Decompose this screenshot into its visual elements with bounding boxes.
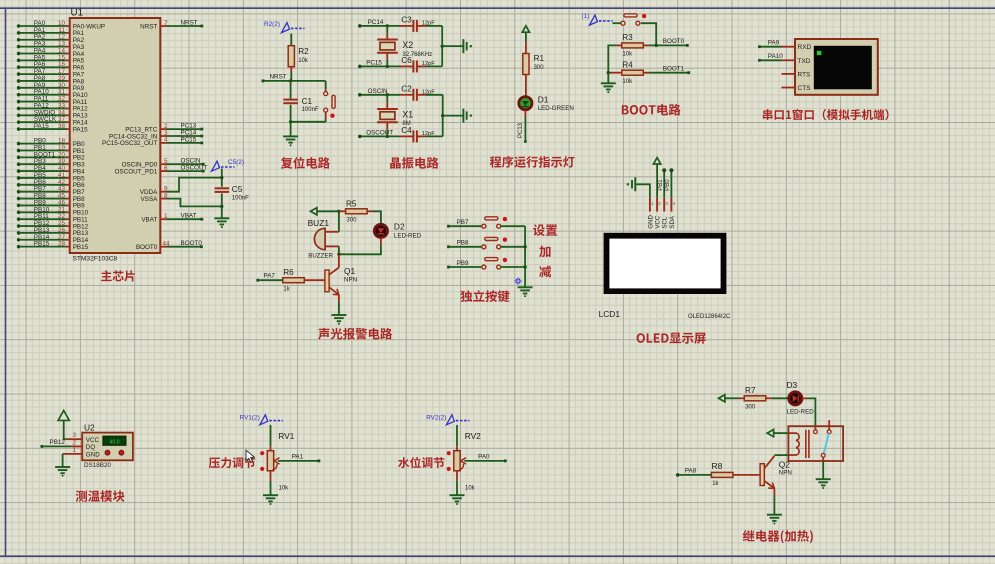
svg-text:X2: X2 bbox=[402, 40, 413, 50]
svg-text:R5: R5 bbox=[346, 199, 357, 208]
svg-text:PB15: PB15 bbox=[34, 241, 50, 248]
label 设置 bbox=[533, 224, 557, 236]
label jingzhen dianlu bbox=[390, 157, 438, 169]
svg-text:PC15: PC15 bbox=[181, 136, 197, 143]
svg-text:OLED12864I2C: OLED12864I2C bbox=[688, 314, 731, 320]
svg-text:PB12: PB12 bbox=[50, 439, 66, 446]
wire R3 left to node bbox=[608, 45, 622, 72]
U1 pin 4 PC15 wire bbox=[102, 136, 203, 147]
wire button to BOOT0 node bbox=[641, 23, 656, 45]
svg-text:GND: GND bbox=[86, 452, 100, 459]
wire PB7 to button bbox=[447, 219, 482, 228]
CTS pin stub bbox=[782, 87, 796, 89]
wire R8 to Q2 base bbox=[733, 474, 760, 476]
wire D2 to collector node bbox=[339, 238, 381, 255]
svg-text:D3: D3 bbox=[787, 380, 798, 390]
svg-text:BUZ1: BUZ1 bbox=[308, 218, 330, 228]
wire net PB1 to U1 pin 19 bbox=[17, 144, 85, 154]
svg-text:D1: D1 bbox=[538, 94, 549, 104]
power flag R2(2) bbox=[264, 21, 305, 33]
wire flag to RV2 bbox=[456, 425, 458, 451]
wire net PB7 to U1 pin 43 bbox=[17, 186, 85, 196]
svg-text:STM32F103C8: STM32F103C8 bbox=[73, 255, 118, 262]
wire node to Q1 collector bbox=[338, 254, 340, 267]
push button PB7 bbox=[482, 217, 507, 228]
wire RV1 wiper to PA1 bbox=[278, 454, 321, 463]
svg-text:OSCIN: OSCIN bbox=[368, 88, 388, 95]
wire R1 to D1 bbox=[525, 75, 527, 97]
wire to ground bbox=[290, 122, 292, 137]
wire Q2 collector to coil bbox=[774, 454, 788, 456]
potentiometer RV2 bbox=[447, 431, 482, 492]
svg-text:32.768KHz: 32.768KHz bbox=[402, 52, 432, 58]
svg-text:RTS: RTS bbox=[798, 72, 812, 79]
power flag RV1(2) bbox=[240, 414, 283, 425]
wire net PA8 to U1 pin 29 bbox=[17, 75, 85, 85]
power arrow relay coil bbox=[767, 430, 788, 437]
wire PA9 to RXD bbox=[758, 39, 795, 48]
ground reset circuit bbox=[283, 136, 298, 146]
wire NRST down to C1 bbox=[290, 81, 292, 99]
ground below C5 bbox=[214, 218, 229, 228]
U1 pin 5 OSCIN wire bbox=[122, 158, 205, 169]
svg-text:R2(2): R2(2) bbox=[264, 21, 280, 28]
wire D1 to PC13 bbox=[518, 110, 527, 143]
svg-text:LED-RED: LED-RED bbox=[787, 408, 815, 415]
wire R4 to BOOT1 bbox=[643, 66, 690, 75]
svg-text:BOOT0: BOOT0 bbox=[663, 38, 685, 45]
display LCD1 OLED12864I2C bbox=[599, 233, 731, 320]
U1 pin 7 NRST wire bbox=[140, 19, 203, 30]
label 压力调节 bbox=[209, 457, 255, 468]
wire PB9 to button bbox=[447, 260, 482, 269]
wire net SWDIO to U1 pin 34 bbox=[17, 109, 88, 119]
node NRST bbox=[262, 74, 326, 83]
label fuwei dianlu bbox=[281, 157, 330, 169]
svg-text:1k: 1k bbox=[283, 286, 290, 292]
wire D3 to relay common bbox=[802, 398, 815, 429]
wire relay contact to ground bbox=[822, 457, 824, 479]
label OLED xianshiping bbox=[637, 333, 706, 344]
wire net PA11 to U1 pin 32 bbox=[17, 96, 88, 106]
wire C5 bottom bbox=[220, 194, 223, 218]
label zhuxinpian bbox=[101, 270, 135, 281]
svg-text:VBAT: VBAT bbox=[181, 213, 197, 220]
U2 pin 2 DQ wire PB12 bbox=[41, 439, 83, 448]
wire net PA3 to U1 pin 13 bbox=[17, 41, 85, 51]
wire BUZ1 bottom to node bbox=[337, 246, 340, 256]
push button PB9 bbox=[482, 258, 507, 269]
wire flag to R2 bbox=[290, 34, 292, 46]
svg-text:C5(2): C5(2) bbox=[228, 159, 244, 166]
label 减 bbox=[539, 266, 551, 278]
push button PB8 bbox=[482, 237, 507, 248]
svg-text:PB7: PB7 bbox=[457, 219, 469, 226]
resistor R4 bbox=[622, 61, 644, 85]
svg-text:3: 3 bbox=[72, 432, 76, 439]
junction marker blue bbox=[514, 277, 522, 285]
wire to boot button bbox=[613, 22, 622, 24]
svg-text:RV1(2): RV1(2) bbox=[240, 414, 260, 421]
U2 pin 1 GND bbox=[63, 447, 83, 467]
svg-text:BOOT0: BOOT0 bbox=[136, 244, 158, 251]
wire Q1 emitter to ground bbox=[338, 295, 340, 315]
crystal X2 group (C3/C6) bbox=[358, 16, 472, 73]
svg-text:PB9: PB9 bbox=[457, 260, 469, 267]
wire net PB3 to U1 pin 39 bbox=[17, 158, 85, 168]
svg-text:PA15: PA15 bbox=[73, 126, 88, 133]
svg-text:BOOT1: BOOT1 bbox=[663, 66, 685, 73]
power arrow U2 bbox=[58, 411, 69, 440]
svg-text:CTS: CTS bbox=[798, 85, 812, 92]
wire VCC power bbox=[654, 158, 661, 198]
U1 pin 9 VDDA wire bbox=[140, 178, 222, 196]
svg-text:U2: U2 bbox=[84, 423, 95, 433]
power arrow left of R7 bbox=[719, 395, 745, 402]
svg-text:40.0: 40.0 bbox=[109, 439, 119, 445]
svg-text:PC13: PC13 bbox=[518, 122, 524, 138]
wire PA10 to TXD bbox=[758, 53, 795, 62]
push button boot bbox=[621, 14, 646, 25]
U1 pin 1 VBAT wire bbox=[141, 213, 203, 224]
svg-text:RV1: RV1 bbox=[278, 431, 294, 441]
wire button PB9 to bus bbox=[501, 266, 525, 268]
svg-text:OSCOUT_PD1: OSCOUT_PD1 bbox=[115, 168, 158, 175]
LCD1 pin GND bbox=[647, 198, 654, 229]
wire flag to RV1 bbox=[270, 425, 272, 451]
power flag RV2(2) bbox=[426, 414, 469, 425]
svg-text:300: 300 bbox=[534, 65, 545, 71]
svg-text:LED-RED: LED-RED bbox=[394, 232, 422, 239]
potentiometer RV1 bbox=[260, 431, 295, 492]
svg-text:PC15: PC15 bbox=[366, 59, 382, 66]
wire net SWCLK to U1 pin 37 bbox=[17, 116, 88, 126]
LCD1 pin VCC bbox=[655, 198, 662, 229]
wire R3 to BOOT0 bbox=[643, 38, 688, 47]
svg-text:NRST: NRST bbox=[270, 74, 287, 81]
power flag C5(2) bbox=[212, 159, 244, 171]
wire button PB8 to bus bbox=[501, 246, 525, 248]
wire net PB9 to U1 pin 46 bbox=[17, 199, 85, 209]
wire net PB10 to U1 pin 21 bbox=[17, 206, 89, 216]
wire net PB4 to U1 pin 40 bbox=[17, 165, 85, 175]
wire net PB12 to U1 pin 25 bbox=[17, 220, 89, 230]
resistor R7 bbox=[744, 386, 766, 410]
svg-text:PC14: PC14 bbox=[368, 19, 384, 26]
svg-text:D2: D2 bbox=[394, 222, 405, 232]
svg-text:1: 1 bbox=[72, 447, 76, 454]
mouse cursor bbox=[246, 450, 254, 462]
power arrow left of R5 bbox=[311, 208, 346, 215]
LED D1 green bbox=[519, 94, 574, 112]
svg-text:TXD: TXD bbox=[798, 58, 811, 65]
RTS pin stub bbox=[782, 73, 796, 75]
resistor R6 bbox=[283, 268, 305, 292]
wire button bus bbox=[523, 226, 526, 287]
svg-text:R8: R8 bbox=[711, 461, 722, 471]
svg-text:VCC: VCC bbox=[655, 215, 662, 228]
wire SCL PB1 bbox=[658, 168, 666, 198]
svg-text:NRST: NRST bbox=[140, 23, 157, 30]
svg-text:100nF: 100nF bbox=[302, 107, 319, 113]
svg-text:DS18B20: DS18B20 bbox=[84, 462, 111, 469]
wire button PB7 to bus bbox=[501, 225, 525, 227]
wire PA7 to R6 bbox=[256, 273, 282, 282]
label chengxu yunxing zhishideng bbox=[490, 156, 575, 168]
wire net PA12 to U1 pin 33 bbox=[17, 102, 88, 112]
U1 pin 2 PC13 wire bbox=[125, 123, 203, 134]
svg-text:PA7: PA7 bbox=[264, 273, 276, 280]
svg-text:R1: R1 bbox=[534, 54, 545, 63]
svg-text:C2: C2 bbox=[401, 84, 412, 93]
wire node to ground bbox=[607, 71, 622, 83]
svg-text:PA1: PA1 bbox=[292, 454, 304, 461]
push button reset bbox=[324, 92, 335, 118]
wire RV1 to ground bbox=[270, 471, 272, 495]
wire net PA1 to U1 pin 11 bbox=[17, 27, 85, 37]
svg-text:DQ: DQ bbox=[86, 444, 96, 451]
svg-text:PA8: PA8 bbox=[685, 467, 697, 474]
wire C1 to bottom node bbox=[290, 105, 292, 122]
wire to reset button bbox=[325, 81, 327, 92]
label shengguang baojing dianlu bbox=[318, 328, 392, 340]
label duli anjian bbox=[460, 290, 509, 302]
label chuankou 1 chuangkou bbox=[763, 109, 889, 120]
wire Q2 emitter to ground bbox=[773, 488, 775, 514]
svg-text:RV2: RV2 bbox=[465, 431, 481, 441]
wire net PB5 to U1 pin 41 bbox=[17, 172, 85, 182]
wire C5 top bbox=[220, 169, 223, 187]
power arrow above R1 bbox=[522, 26, 529, 54]
capacitor C1 bbox=[283, 97, 319, 113]
U1 pin 8 VSSA wire bbox=[140, 192, 221, 206]
svg-text:10k: 10k bbox=[279, 486, 290, 492]
wire RV2 to ground bbox=[456, 471, 458, 495]
wire PA8 to R8 bbox=[676, 467, 712, 476]
relay RL1 body bbox=[788, 420, 843, 461]
buzzer BUZ1 bbox=[308, 218, 339, 259]
wire SDA PB0 bbox=[665, 168, 673, 198]
svg-text:C4: C4 bbox=[401, 126, 412, 135]
resistor R5 bbox=[346, 199, 368, 223]
temperature module U2 DS18B20 bbox=[82, 423, 133, 469]
wire net PB11 to U1 pin 22 bbox=[17, 213, 88, 223]
ground U2 bbox=[55, 467, 70, 477]
svg-text:VCC: VCC bbox=[86, 437, 100, 444]
power flag (1) bbox=[582, 13, 613, 25]
resistor R8 bbox=[711, 461, 733, 487]
wire power to BUZ1 top pin bbox=[338, 211, 340, 232]
svg-text:PA0: PA0 bbox=[478, 454, 490, 461]
U1 pin 44 BOOT0 wire bbox=[136, 240, 203, 251]
ground left of LCD1 bbox=[627, 177, 636, 191]
ground buttons bbox=[518, 287, 533, 297]
wire net PA7 to U1 pin 17 bbox=[17, 68, 85, 78]
svg-text:PA10: PA10 bbox=[768, 53, 783, 60]
svg-text:LED-GREEN: LED-GREEN bbox=[538, 105, 574, 112]
svg-text:38: 38 bbox=[58, 123, 66, 130]
wire PB8 to button bbox=[447, 240, 482, 249]
svg-text:28: 28 bbox=[58, 241, 66, 248]
wire net PB6 to U1 pin 42 bbox=[17, 179, 85, 189]
svg-text:(1): (1) bbox=[582, 13, 590, 20]
wire net PA4 to U1 pin 14 bbox=[17, 47, 85, 57]
ground relay bbox=[816, 479, 831, 489]
svg-text:R4: R4 bbox=[622, 61, 633, 70]
label BOOT dianlu bbox=[622, 104, 681, 116]
svg-text:R2: R2 bbox=[298, 47, 309, 56]
svg-text:PB0: PB0 bbox=[665, 179, 671, 191]
resistor R1 bbox=[523, 54, 545, 75]
svg-text:10k: 10k bbox=[622, 52, 633, 58]
svg-text:10k: 10k bbox=[465, 486, 476, 492]
svg-text:PB1: PB1 bbox=[658, 179, 664, 191]
label 水位调节 bbox=[398, 457, 444, 468]
wire net PA6 to U1 pin 16 bbox=[17, 61, 85, 71]
svg-text:GND: GND bbox=[647, 214, 654, 228]
svg-text:1k: 1k bbox=[712, 481, 719, 487]
capacitor C5 bbox=[215, 185, 250, 202]
svg-text:LCD1: LCD1 bbox=[599, 309, 621, 319]
svg-text:PB8: PB8 bbox=[457, 240, 469, 247]
wire R2 to NRST node bbox=[290, 67, 292, 81]
wire net PB14 to U1 pin 27 bbox=[17, 234, 89, 244]
svg-text:10k: 10k bbox=[298, 58, 309, 64]
svg-text:VBAT: VBAT bbox=[141, 217, 157, 224]
svg-text:PA9: PA9 bbox=[768, 39, 780, 46]
resistor R2 bbox=[288, 46, 309, 67]
wire button to bottom node bbox=[289, 112, 326, 123]
svg-text:PC15-OSC32_OUT: PC15-OSC32_OUT bbox=[102, 140, 157, 147]
wire net PA15 to U1 pin 38 bbox=[17, 123, 88, 133]
svg-text:300: 300 bbox=[346, 218, 357, 224]
svg-text:BUZZER: BUZZER bbox=[308, 252, 333, 259]
LCD1 pin SDA bbox=[669, 198, 676, 229]
svg-text:Q2: Q2 bbox=[779, 459, 791, 469]
wire net PB8 to U1 pin 45 bbox=[17, 193, 85, 203]
U2 pin 3 VCC bbox=[66, 432, 82, 439]
label cewen mokuai bbox=[76, 490, 125, 502]
svg-text:Q1: Q1 bbox=[344, 266, 356, 276]
svg-text:BOOT0: BOOT0 bbox=[181, 240, 203, 247]
svg-text:R3: R3 bbox=[622, 33, 633, 42]
svg-text:RV2(2): RV2(2) bbox=[426, 414, 446, 421]
svg-text:NRST: NRST bbox=[181, 19, 198, 26]
wire R6 to Q1 base bbox=[304, 279, 325, 281]
wire net PB15 to U1 pin 28 bbox=[17, 241, 89, 251]
svg-text:X1: X1 bbox=[402, 110, 413, 120]
U1 pin 6 OSCOUT wire bbox=[115, 165, 208, 176]
svg-text:R7: R7 bbox=[745, 386, 756, 395]
svg-text:C3: C3 bbox=[401, 16, 412, 25]
svg-text:PB15: PB15 bbox=[73, 244, 89, 251]
svg-text:8M: 8M bbox=[402, 121, 410, 127]
svg-text:100nF: 100nF bbox=[232, 196, 249, 202]
LED D3 red bbox=[787, 380, 815, 415]
LCD1 pin SCL bbox=[662, 198, 669, 229]
ground Q2 bbox=[767, 515, 782, 525]
svg-text:R6: R6 bbox=[283, 268, 294, 277]
ground RV2 bbox=[450, 495, 465, 505]
wire net PA5 to U1 pin 15 bbox=[17, 54, 85, 64]
wire GND to side ground bbox=[636, 184, 650, 198]
U1 pin 3 PC14 wire bbox=[109, 129, 203, 140]
svg-text:PA15: PA15 bbox=[34, 123, 49, 130]
ground alarm circuit bbox=[331, 315, 346, 325]
svg-text:C1: C1 bbox=[302, 97, 313, 106]
svg-text:U1: U1 bbox=[71, 8, 84, 19]
svg-text:NPN: NPN bbox=[779, 470, 792, 477]
ground BOOT circuit bbox=[601, 83, 616, 93]
svg-text:SCL: SCL bbox=[662, 216, 669, 228]
crystal X1 group (C2/C4) bbox=[358, 84, 472, 142]
resistor R3 bbox=[622, 33, 644, 57]
wire R7 to D3 bbox=[766, 397, 789, 399]
wire net PB0 to U1 pin 18 bbox=[17, 138, 85, 148]
svg-text:300: 300 bbox=[745, 405, 756, 411]
label jidianqi jiare bbox=[743, 530, 813, 543]
svg-text:SDA: SDA bbox=[669, 215, 676, 228]
wire net PA10 to U1 pin 31 bbox=[17, 89, 88, 99]
svg-text:C5: C5 bbox=[232, 185, 243, 194]
wire net PA9 to U1 pin 30 bbox=[17, 82, 85, 92]
svg-text:2: 2 bbox=[72, 440, 76, 447]
wire net PA2 to U1 pin 12 bbox=[17, 34, 85, 44]
wire R5 to D2 bbox=[367, 211, 381, 223]
svg-text:RXD: RXD bbox=[798, 44, 812, 51]
transistor Q1 bbox=[325, 266, 357, 295]
svg-text:NPN: NPN bbox=[344, 277, 357, 284]
microcontroller U1 STM32F103C8 body bbox=[70, 8, 161, 263]
svg-text:VSSA: VSSA bbox=[140, 196, 158, 203]
wire net PB13 to U1 pin 26 bbox=[17, 227, 89, 237]
label 加 bbox=[539, 246, 550, 258]
wire net BOOT1 to U1 pin 20 bbox=[17, 151, 85, 161]
virtual terminal body bbox=[795, 39, 878, 95]
svg-text:10k: 10k bbox=[622, 79, 633, 85]
svg-text:OSCOUT: OSCOUT bbox=[366, 129, 393, 136]
wire net PA0 to U1 pin 10 bbox=[17, 20, 105, 30]
transistor Q2 bbox=[760, 456, 792, 488]
LED D2 red bbox=[374, 222, 421, 240]
wire RV2 wiper to PA0 bbox=[464, 454, 506, 463]
ground RV1 bbox=[263, 495, 278, 505]
